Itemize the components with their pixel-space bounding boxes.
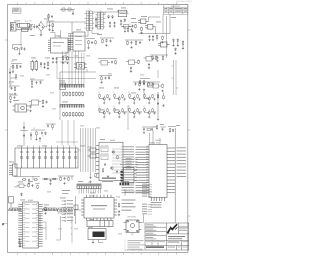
module X1 box [87, 221, 113, 227]
resistor row RA1 [63, 92, 84, 97]
title text lines [168, 236, 185, 239]
diode D9 [40, 62, 42, 68]
driver group Q4 [143, 92, 155, 104]
cluster above MCU crystal [142, 125, 166, 134]
wire left of U8 vertical [76, 196, 82, 224]
wire MCU top verticals [150, 130, 161, 145]
capacitor C2 [36, 25, 38, 28]
IC U2 interior text [53, 42, 64, 46]
wire U7 right vertical [40, 213, 46, 228]
header J4 strip [77, 184, 101, 189]
transformer T1 windings [84, 9, 94, 31]
MOV RV1 [30, 25, 32, 31]
wire U2 to U3 [68, 34, 73, 51]
comb row extension right of U7 [58, 208, 74, 213]
resistor R12 [66, 56, 68, 64]
cluster above U7 [17, 183, 40, 189]
net name labels right of MCU [177, 147, 187, 177]
top border zone ticks [17, 2, 176, 4]
capacitor C5 output [113, 22, 115, 28]
cluster mid extra parts [30, 80, 44, 88]
wires U2 top to transformers [50, 30, 61, 38]
svg-text:10: 10 [25, 3, 27, 5]
sub boxes left of U5 [88, 148, 97, 158]
driver group Q7b [128, 106, 140, 118]
internal row lines U5 [112, 149, 122, 173]
display module DS1 [88, 229, 106, 240]
diode D12 [21, 193, 23, 197]
vertical chain left x24 [20, 122, 28, 146]
driver group Q2 [113, 92, 125, 104]
svg-text:R21: R21 [11, 61, 14, 63]
net name labels left of MCU [122, 146, 135, 193]
wire primary bus [58, 22, 86, 33]
resistor network RN1 bus [60, 85, 84, 88]
wire U3 to comb bus [60, 51, 72, 85]
zone number digits bottom [25, 254, 186, 256]
cluster top edge parts B [46, 14, 54, 22]
resistor network RN1 left box [60, 83, 66, 90]
sub-block inside U5 upper [101, 146, 108, 152]
cluster below relay box far right [58, 176, 74, 184]
wire transformer secondary to U2 [68, 31, 99, 36]
company name text [179, 227, 188, 232]
parts row lower [150, 55, 168, 62]
text rows left of U8 [62, 190, 70, 194]
dark rows inside U5 bottom [102, 178, 116, 182]
wire driver grid to MCU [128, 70, 158, 130]
driver group Q1 [98, 92, 110, 104]
cluster upper mid right B [144, 56, 157, 69]
wire mid horizontal y72 [60, 69, 96, 72]
IC U2 PWM controller [48, 36, 71, 53]
parts inside U5 right [102, 151, 118, 178]
cluster feedback parts [86, 39, 96, 49]
wire below relay box [14, 168, 40, 180]
title block approval texts [146, 224, 157, 239]
capacitor C12 [52, 57, 54, 63]
cluster snubber A [13, 45, 26, 55]
resistor network RN2 bus [60, 105, 84, 108]
resistor R6 [156, 35, 158, 41]
right column parts beside grid [157, 92, 165, 120]
resistor R9 near border [182, 41, 184, 50]
inductor L1 output [118, 10, 127, 16]
op-amp U1B comparator [145, 25, 156, 30]
extra faint reference texts [9, 13, 154, 234]
title block outline [145, 223, 189, 250]
cluster above driver grid [98, 59, 117, 66]
svg-text:T1: T1 [88, 9, 90, 11]
cluster left column extra A [9, 68, 17, 88]
sheet note box top left [13, 8, 22, 13]
connector J3 side [9, 164, 17, 176]
rectifier diode D1 [108, 15, 110, 19]
relay coil circles [20, 151, 77, 159]
svg-text:FL1: FL1 [25, 21, 28, 23]
svg-text:REVISIONS: REVISIONS [171, 6, 180, 8]
capacitor C3 bulk [48, 22, 50, 31]
cluster mid right C [139, 79, 153, 91]
capacitor C4 output [109, 22, 111, 28]
parts right top area [125, 40, 143, 48]
notes list [125, 240, 145, 252]
svg-text:D6: D6 [42, 136, 44, 138]
net label rows U5-MCU [126, 158, 138, 170]
svg-text:U9: U9 [128, 166, 130, 168]
diode D3 [124, 19, 126, 23]
svg-text:U5004: U5004 [110, 140, 115, 142]
zener diode Z2 [177, 39, 179, 47]
diode D8 [29, 105, 31, 112]
IC U8 codec [81, 195, 117, 221]
IC U7 interior pin names [25, 204, 38, 242]
title block field texts [146, 241, 188, 248]
ground under display [92, 240, 103, 244]
connector header U3 [68, 32, 85, 51]
wire top right vertical [169, 15, 171, 34]
IC U7 I/O expander [18, 202, 42, 248]
capacitor C8 [148, 35, 150, 41]
caps row above driver grid [133, 82, 160, 90]
svg-text:BZ1: BZ1 [131, 234, 134, 236]
revision history table [163, 5, 188, 15]
cluster left column extra B [9, 95, 18, 103]
sheet border frame [8, 5, 188, 253]
dark pads left of U9 [120, 171, 123, 181]
right margin vertical bus [172, 60, 179, 95]
parts left of U7 bottom [18, 238, 21, 248]
cluster aux parts [100, 38, 114, 46]
cluster small parts y74 [99, 76, 112, 84]
wire filter to lower cluster [20, 32, 22, 47]
svg-text:C31: C31 [33, 128, 36, 130]
cluster right of U8 [118, 203, 120, 216]
cluster top mid extra [95, 17, 97, 29]
op-amp U1A comparator [138, 19, 149, 24]
cluster right of MCU top [168, 127, 176, 133]
termination dark pads row [120, 183, 130, 186]
line filter FL1 [18, 21, 33, 32]
wires right of relay box [78, 128, 96, 172]
connector J1 power entry [10, 23, 17, 31]
driver group Q3 [128, 92, 140, 104]
wire comb feed [59, 72, 61, 120]
svg-text:NOTES: UNLESS OTHERWISE: NOTES: UNLESS OTHERWISE [125, 250, 145, 252]
resistor row RA2 [63, 112, 84, 117]
parts row below relay box right [42, 178, 58, 185]
left border zone ticks [2, 40, 7, 225]
right border zone ticks [188, 30, 190, 216]
scattered reference labels [9, 8, 180, 228]
cluster above relay box [30, 128, 47, 142]
long wire right bus [174, 128, 176, 223]
svg-text:U8001: U8001 [91, 195, 96, 197]
wire buzzer right [142, 215, 144, 223]
capacitor C6 [120, 20, 122, 26]
wire secondary top bus [92, 10, 128, 14]
cluster upper mid right A [126, 60, 139, 73]
relay box top stubs [22, 146, 76, 149]
jumper list left of U8 [62, 200, 74, 221]
driver group Q8b [143, 106, 155, 118]
cluster right of above-relay area [46, 124, 56, 130]
cluster rectifier aux parts [121, 23, 137, 33]
svg-text:U7001: U7001 [28, 200, 33, 202]
resistor R7 divider [161, 36, 163, 44]
cluster mid parts [29, 100, 48, 108]
IC U8 interior label [91, 205, 107, 210]
display module dark window [93, 232, 105, 238]
capacitor C23 [43, 63, 45, 69]
SIP array right of U7 [43, 208, 58, 211]
parts below relay box [22, 179, 38, 185]
capacitor C1 [33, 24, 35, 28]
svg-text:8001-0046-01 REV B: 8001-0046-01 REV B [176, 1, 191, 3]
cluster top edge parts [60, 8, 75, 15]
pin number marks U6 left [146, 146, 148, 193]
transformer T2 windings [96, 11, 106, 30]
zener diode Z1 [172, 39, 174, 47]
diode D5 [174, 48, 176, 55]
cluster right mid extra [151, 84, 164, 93]
wire bottom center [125, 189, 152, 196]
capacitor C13 [55, 57, 57, 63]
wire mesh U3 pins down [57, 51, 96, 85]
wires header to U8 [79, 189, 101, 194]
left edge small box [9, 197, 14, 208]
resistor R31 [44, 207, 46, 215]
cluster output filter parts [122, 27, 133, 33]
driver group Q6 [113, 106, 125, 118]
pin number marks U7 [23, 203, 38, 245]
wire mesh combs to relay box [56, 120, 78, 146]
cluster sense C [10, 84, 20, 95]
wire right column verticals [163, 15, 167, 59]
small box right of comb [74, 205, 78, 216]
net labels below MCU [151, 202, 162, 208]
company logo swoosh [167, 224, 178, 234]
resistor R1 bleed [52, 23, 54, 31]
small IC U1C [158, 42, 170, 47]
bridge rectifier BR1 [37, 21, 44, 36]
capacitor C9 [152, 35, 154, 41]
buzzer BZ1 box [124, 220, 142, 233]
config text rows [122, 200, 136, 211]
resistor R11 [62, 56, 64, 64]
IC U5 analog block [96, 142, 123, 181]
SIP array left of U7 [9, 208, 21, 211]
connector U3 interior text [75, 36, 82, 45]
opto isolator U4 [74, 63, 87, 70]
sub-block inside U5 lower [101, 154, 108, 160]
wire AC to transformer [45, 22, 58, 27]
resistor R5 [140, 27, 142, 34]
wire U7 right down [43, 222, 46, 240]
rectifier diode D2 [112, 15, 114, 19]
svg-text:VIN+: VIN+ [29, 20, 33, 22]
bottom border zone ticks [17, 253, 176, 255]
IC U9 interface [121, 166, 137, 183]
svg-text:10: 10 [25, 254, 27, 256]
zone number digits top [25, 3, 186, 5]
resistor R24 [47, 62, 49, 70]
svg-text:U2: U2 [58, 36, 60, 38]
parts below right verticals [89, 172, 96, 183]
svg-text:OPTION BD: OPTION BD [127, 216, 137, 218]
net label rows right A [142, 184, 152, 197]
cluster sense B [11, 61, 22, 73]
IC U6 microcontroller [136, 145, 176, 202]
inductor L2 vertical [31, 60, 38, 71]
svg-text:J4: J4 [88, 182, 90, 184]
wires below jumper area [56, 216, 72, 243]
driver group Q5 [98, 106, 110, 118]
relay driver array block [15, 148, 78, 168]
net label rows right B [142, 204, 152, 215]
relay K1 small [13, 104, 30, 112]
wire feedback bus [139, 17, 171, 34]
